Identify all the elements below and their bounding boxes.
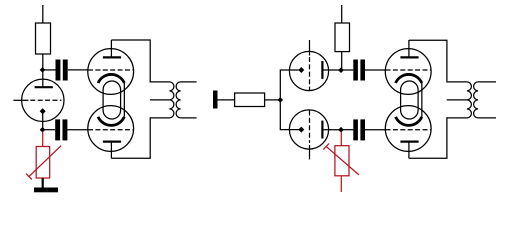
wire T2 secondary top [478,81,496,83]
triode V1 grid lead [13,99,28,101]
wire C2 to V3 grid [67,129,88,131]
resistor R3 [235,93,265,107]
triode V6 envelope [385,49,431,95]
triode V3 envelope [88,106,134,152]
triode V1 cathode [40,108,46,114]
node D junction [338,67,344,73]
triode V7 plate [400,140,418,142]
triode V1 plate lead [42,70,44,87]
triode V5 envelope [289,110,328,149]
triode V7 envelope [385,106,431,152]
node E junction [338,127,344,133]
triode V5 grid [309,111,311,144]
wire junction B to preset P1 [42,132,44,147]
triode V3 plate [103,140,121,142]
wire node D to C3 [341,69,353,71]
wire V7 plate to T2 [409,118,467,158]
wire cathode tie V6-V7 [421,83,423,117]
triode V3 plate lead [110,142,112,159]
triode V6 plate [400,56,418,58]
resistor R1 [36,5,51,70]
triode V6 cathode [396,74,422,83]
wire node C rail [280,70,301,130]
wire V3 plate to T1 [111,118,169,158]
resistor R4 [335,5,350,70]
triode V5 plate [321,121,323,139]
wire T1 secondary top [181,81,197,83]
transformer T1 secondary [176,82,181,118]
wire junction B to C2 [43,129,56,131]
triode V2 envelope [88,49,134,95]
triode V6 grid [386,69,432,71]
node A junction [40,67,46,73]
wire T2 center tap [447,99,467,101]
node B junction [40,127,46,133]
capacitor C3 [353,60,365,81]
capacitor C4 [353,119,365,140]
wire P1 to ground [42,178,44,188]
transformer T1 primary [169,82,174,118]
node C junction [278,97,284,103]
triode V2 plate lead [110,40,112,57]
triode V1 grid [30,99,61,101]
preset resistor P2 [323,144,359,193]
triode V1 cathode lead [42,111,44,129]
wire junction A to C1 [43,69,56,71]
preset resistor P1 [26,146,61,180]
wire R3 to node C [265,99,281,101]
triode V6 plate lead [408,40,410,57]
wire T2 secondary bottom [478,117,496,119]
triode V4 envelope [289,51,328,90]
wire C1 to V2 grid [68,69,88,71]
wire C3 to V6 grid [365,69,385,71]
triode V2 plate [103,56,121,58]
triode V2 cathode [98,74,124,83]
triode V5 grid lead [309,145,311,159]
triode V1 plate [35,86,53,88]
capacitor C2 [55,119,67,140]
triode V7 plate lead [408,142,410,159]
triode V4 cathode [298,67,304,73]
common cathode sleeve V6-V7 [401,81,419,119]
wire T1 center tap [150,99,169,101]
common cathode sleeve V2-V3 [103,81,121,119]
triode V4 grid lead [309,40,311,56]
input terminal [213,91,218,109]
triode V7 cathode [396,117,422,126]
wire V6 plate to T2 [409,40,467,82]
wire node E to C4 [341,129,353,131]
triode V2 grid [88,69,134,71]
wire C4 to V7 grid [365,129,385,131]
wire terminal to R3 [218,99,235,101]
wire node E to preset P2 [340,132,342,146]
transformer T2 primary [467,82,472,118]
triode V5 cathode [298,127,304,133]
triode V5 plate lead [322,129,341,131]
triode V4 plate [321,61,323,79]
triode V1 envelope [22,79,64,121]
ground [34,188,58,193]
transformer T2 secondary [474,82,479,118]
triode V3 cathode [98,117,124,126]
triode V3 grid [88,129,134,131]
triode V4 plate lead [322,69,341,71]
wire cathode tie V2-V3 [123,83,125,117]
triode V7 grid [386,129,432,131]
triode V4 grid [309,57,311,91]
capacitor C1 [56,60,68,81]
wire T1 secondary bottom [181,117,197,119]
wire V2 plate to T1 [111,40,169,82]
